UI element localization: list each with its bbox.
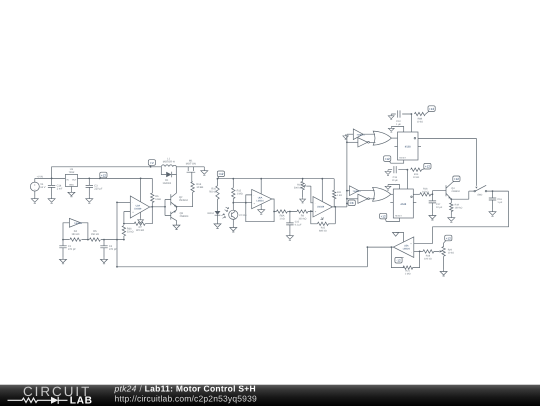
svg-text:1 MΩ: 1 MΩ (405, 273, 411, 276)
inverter gate B (347, 198, 358, 200)
svg-text:GND: GND (69, 184, 74, 187)
hysteresis pot loop (311, 207, 336, 224)
photo arrows (225, 207, 229, 212)
capacitor C14 1mF (51, 178, 53, 196)
svg-text:12 V: 12 V (40, 186, 46, 189)
svg-text:-: - (411, 251, 412, 254)
wire switch output node (487, 190, 509, 192)
svg-text:0.1 µF: 0.1 µF (295, 224, 302, 227)
svg-text:MOT-ON: MOT-ON (186, 163, 196, 166)
svg-text:2N3904: 2N3904 (180, 215, 189, 218)
svg-text:820 kΩ: 820 kΩ (136, 229, 144, 232)
ground comparator V- (140, 212, 142, 218)
svg-text:2N3904: 2N3904 (451, 190, 460, 193)
op-amp U2B LM339 comparator (313, 197, 332, 217)
ground for C3 (86, 197, 93, 204)
op-amp U5A LM324 buffer (393, 237, 414, 258)
op-amp U6A LM324 (252, 189, 272, 208)
wire C13/R14 timing node (388, 170, 407, 189)
svg-text:http://circuitlab.com/c2p2n53y: http://circuitlab.com/c2p2n53yq5939 (115, 393, 257, 403)
ground for R17 (300, 197, 306, 203)
resistor R18 100kOhm (420, 250, 439, 252)
wire U3 top-left pin to ground bracket (391, 127, 403, 133)
wire U6 V+ from rail (260, 179, 262, 194)
ground for V1 (31, 197, 38, 204)
wire C10/R8B timing node (391, 114, 411, 132)
wire U1 GND pin (70, 187, 72, 191)
capacitor C13 10uF (392, 165, 398, 174)
svg-text:MOTOR-H: MOTOR-H (163, 161, 175, 164)
svg-text:+12: +12 (425, 165, 430, 169)
svg-text:+12: +12 (218, 172, 223, 176)
svg-text:1 kΩ: 1 kΩ (155, 198, 160, 201)
resistor R66 23kOhm (122, 226, 125, 236)
capacitor C15 (289, 212, 291, 234)
svg-text:1 MΩ: 1 MΩ (237, 192, 243, 195)
resistor R10 500Ohm (217, 179, 219, 211)
svg-text:10 kΩ: 10 kΩ (417, 120, 424, 123)
svg-text:1 kΩ: 1 kΩ (279, 218, 284, 221)
svg-text:-: - (132, 202, 133, 205)
resistor R13 10kOhm (191, 182, 194, 193)
wire clock vertical to gate chains (346, 134, 348, 207)
transistor Q2 2N3904 (171, 193, 177, 207)
flag +12 timing U3 (426, 111, 430, 114)
wire long feedback vertical (116, 202, 118, 266)
wire comparator - input from feedback node (117, 201, 130, 203)
svg-text:LM324: LM324 (403, 247, 411, 250)
resistor R8A 1kOhm (274, 211, 290, 213)
resistor R12 1MOhm (232, 179, 234, 203)
wire comparator output to base bracket (150, 206, 165, 208)
ground timing node U4 (385, 170, 391, 176)
svg-text:7812: 7812 (69, 171, 75, 174)
wire OR B output to 4538 U4 (391, 193, 394, 195)
ground for C14 (48, 197, 55, 204)
svg-text:500 kΩ: 500 kΩ (294, 187, 302, 190)
svg-text:OUT: OUT (72, 178, 77, 181)
svg-text:4538: 4538 (405, 146, 411, 149)
voltage regulator U1 7812 (65, 174, 77, 186)
svg-text:150 kΩ: 150 kΩ (91, 233, 99, 236)
svg-text:74HC14: 74HC14 (74, 222, 83, 225)
transistor Q3 2N3904 (171, 207, 177, 223)
resistor R11 1kOhm pull-up (333, 179, 335, 207)
capacitor C3 220uF (88, 178, 90, 196)
switch SW2 (469, 190, 474, 192)
diode D1 1N4004 (166, 172, 171, 178)
flag +V on motor rail (149, 165, 152, 167)
flag +12 U4 reset (384, 218, 387, 221)
svg-text:RESET: RESET (395, 214, 402, 217)
wire U4 right pin stub (413, 202, 416, 204)
svg-text:LM324: LM324 (256, 199, 264, 202)
svg-text:500 Ω: 500 Ω (209, 190, 216, 193)
OR gate B (359, 191, 375, 199)
svg-text:1 µF: 1 µF (396, 123, 401, 126)
wire comparator2 V+ from rail (321, 179, 323, 202)
wire +12 rail from U1 out (78, 177, 153, 179)
wire R17 wiper to - input (311, 186, 313, 203)
wire long feedback bottom line (117, 266, 367, 268)
wire U4 bottom pin to flag (386, 218, 399, 222)
svg-text:1N4004: 1N4004 (162, 182, 171, 185)
capacitor C1 470pF (62, 240, 64, 258)
wire hysteresis loop down (124, 207, 152, 224)
svg-text:100 kΩ: 100 kΩ (298, 218, 306, 221)
potentiometer R17 500kOhm (302, 179, 304, 198)
flag +12 U3 reset (389, 161, 390, 163)
svg-text:100 kΩ: 100 kΩ (455, 207, 463, 210)
ground for U1 (68, 190, 75, 197)
wire D1 parallel loop (161, 167, 176, 175)
wire comparator2 output node (335, 206, 347, 208)
capacitor C4 470pF (103, 240, 105, 258)
svg-text:10 kΩ: 10 kΩ (422, 191, 429, 194)
resistor R14 10kOhm (411, 168, 422, 171)
wire U3 right pin stub (418, 146, 421, 148)
wire filter node line (63, 239, 124, 241)
phototransistor Q1 PT204 (229, 210, 238, 219)
ground for C17 (429, 213, 436, 220)
wire photo emitter to ground (232, 219, 234, 225)
ground U6 V- (260, 204, 262, 208)
svg-text:SW2: SW2 (477, 193, 483, 196)
svg-text:+12: +12 (381, 214, 386, 218)
svg-text:1 kΩ: 1 kΩ (337, 194, 342, 197)
wire U3 bottom pin to flag (391, 160, 404, 163)
ground for C1 (60, 257, 67, 264)
inductor L1 MOTOR-H (161, 165, 176, 167)
flag +12 opto rail (217, 176, 220, 179)
svg-text:+12: +12 (429, 107, 434, 111)
voltage source V1 12V (30, 182, 39, 191)
svg-text:U2A: U2A (136, 204, 141, 207)
wiper arrow into R20 (439, 251, 442, 253)
wire Q4 emitter node (451, 191, 469, 199)
potentiometer R15 hysteresis (317, 222, 328, 225)
svg-text:RESET: RESET (399, 157, 406, 160)
svg-text:+: + (253, 203, 255, 206)
ground marker at buffer A input (343, 134, 349, 139)
inverter gate A (347, 141, 358, 143)
svg-text:-12: -12 (396, 259, 401, 263)
ground for C4 (101, 257, 108, 264)
svg-text:+12: +12 (454, 177, 459, 181)
svg-text:1 µF: 1 µF (497, 201, 502, 204)
wire U4 output to R16 (413, 193, 420, 195)
resistor R19 100kOhm (450, 199, 452, 215)
svg-text:4538: 4538 (400, 203, 406, 206)
svg-text:10 kΩ: 10 kΩ (196, 186, 203, 189)
ground for R19 (448, 216, 455, 223)
svg-text:2N3904: 2N3904 (179, 199, 188, 202)
svg-text:+12: +12 (101, 173, 106, 177)
capacitor C16 1uF hold (492, 191, 494, 210)
wire R21 feedback loop (391, 247, 419, 268)
resistor R9 100kOhm (290, 211, 313, 213)
LED emission arrows (222, 214, 226, 218)
svg-text:220 µF: 220 µF (94, 187, 103, 190)
svg-text:-: - (253, 194, 254, 197)
monostable U3 4538 (398, 132, 419, 160)
svg-text:LAB: LAB (70, 396, 93, 407)
resistor R8B 10kOhm (414, 112, 425, 115)
OR gate A (363, 134, 375, 142)
svg-text:+V: +V (150, 161, 154, 165)
wire opto +12 rail (218, 178, 334, 180)
resistor R4 150kOhm (70, 237, 82, 242)
ground timing node U3 (388, 114, 394, 120)
svg-text:23 kΩ: 23 kΩ (127, 230, 134, 233)
wire motor rail to pushbutton (176, 166, 204, 168)
potentiometer R20 10kOhm (443, 243, 445, 269)
LED D2 IR204 (215, 211, 221, 215)
wire OR A output to 4538 U3 (391, 137, 397, 139)
wire R9 node to + input (311, 210, 313, 212)
resistor R21 1MOhm (403, 266, 413, 269)
svg-text:74HC14: 74HC14 (352, 190, 361, 193)
power arrow U5 V+ (396, 232, 404, 242)
ground for R20 (440, 269, 447, 276)
flag +12 on regulator output rail (100, 177, 102, 178)
wire U5 output to feedback line (367, 247, 393, 267)
wire S+H feedback loop to buffer + input (414, 191, 509, 243)
svg-text:U6A: U6A (258, 196, 263, 199)
flag S+H on clock node (347, 203, 350, 205)
svg-text:CK: CK (350, 201, 354, 205)
wire R13 to transistor collector node (177, 192, 193, 206)
ground for Q3 emitter (173, 223, 180, 230)
flag +12 timing U4 (422, 169, 426, 170)
svg-text:680 kΩ: 680 kΩ (319, 229, 327, 232)
wire U5 - input to R18 node (414, 250, 420, 252)
svg-text:1 mF: 1 mF (57, 187, 63, 190)
svg-text:LM339: LM339 (317, 206, 325, 209)
flag +12 R20 top (444, 240, 447, 243)
wire photo collector to op-amp + input (233, 203, 251, 211)
svg-text:+: + (132, 211, 134, 214)
buffer gate A (347, 133, 353, 135)
svg-text:+12: +12 (446, 236, 451, 240)
svg-text:LM339: LM339 (134, 207, 142, 210)
svg-text:+: + (315, 210, 317, 213)
ground for D2 (214, 222, 221, 229)
potentiometer R7 820kOhm (134, 222, 145, 225)
flag +12 Q4 collector (452, 181, 454, 182)
svg-text:U5A: U5A (404, 244, 409, 247)
ground for C16 (489, 210, 496, 217)
wire raw +V riser to motor rail (52, 167, 162, 179)
footer bar (0, 384, 540, 406)
svg-text:10 µF: 10 µF (392, 179, 399, 182)
capacitor C10 1uF (396, 110, 402, 119)
svg-text:ptk24 / Lab11: Motor Control S: ptk24 / Lab11: Motor Control S+H (114, 385, 256, 394)
wire U3 left pin stub (394, 146, 397, 148)
flag -12 U5 V- (401, 256, 404, 259)
svg-text:10 kΩ: 10 kΩ (413, 176, 420, 179)
capacitor C17 10uF (431, 194, 433, 213)
ground for C15 (286, 234, 293, 241)
svg-text:+12: +12 (385, 157, 390, 161)
wire motor low side to Q2 collector (176, 175, 178, 194)
svg-text:150 kΩ: 150 kΩ (71, 233, 79, 236)
svg-text:10 µF: 10 µF (436, 206, 443, 209)
wire U4 top-left pin to ground bracket (388, 185, 400, 190)
transistor Q4 2N3904 (446, 184, 451, 199)
wire U6 feedback loop (246, 195, 274, 222)
pushbutton M1 MOT-ON (187, 167, 196, 182)
resistor R6 1kOhm pull-up (151, 178, 153, 206)
svg-text:+: + (410, 243, 412, 246)
resistor R5 150kOhm (89, 237, 101, 242)
monostable U4 4538 (393, 189, 413, 218)
wire comparator V+ from +12 rail (140, 178, 142, 202)
svg-text:470 pF: 470 pF (109, 248, 117, 251)
wire main rail from V1 to regulator (35, 177, 66, 179)
svg-text:IR204: IR204 (207, 212, 214, 215)
buffer gate B (347, 190, 350, 192)
wire base bracket from comparator to Q2/Q3 (165, 200, 171, 216)
svg-text:100 kΩ: 100 kΩ (424, 258, 432, 261)
junction dots (51, 178, 53, 180)
wire R16 to Q4 base (431, 191, 446, 195)
op-amp U2A LM339 comparator (130, 196, 149, 218)
svg-text:-: - (315, 202, 316, 205)
svg-text:470 pF: 470 pF (68, 248, 76, 251)
svg-text:10 kΩ: 10 kΩ (448, 252, 455, 255)
wire Q4 collector to flag (451, 182, 453, 183)
ground at motor rail end (203, 167, 205, 169)
buffer U3 across R4 (63, 223, 88, 240)
resistor R16 10kOhm (420, 193, 431, 196)
wire U4 left pin stub (390, 202, 393, 204)
wire U3 output to switch control (418, 138, 476, 186)
